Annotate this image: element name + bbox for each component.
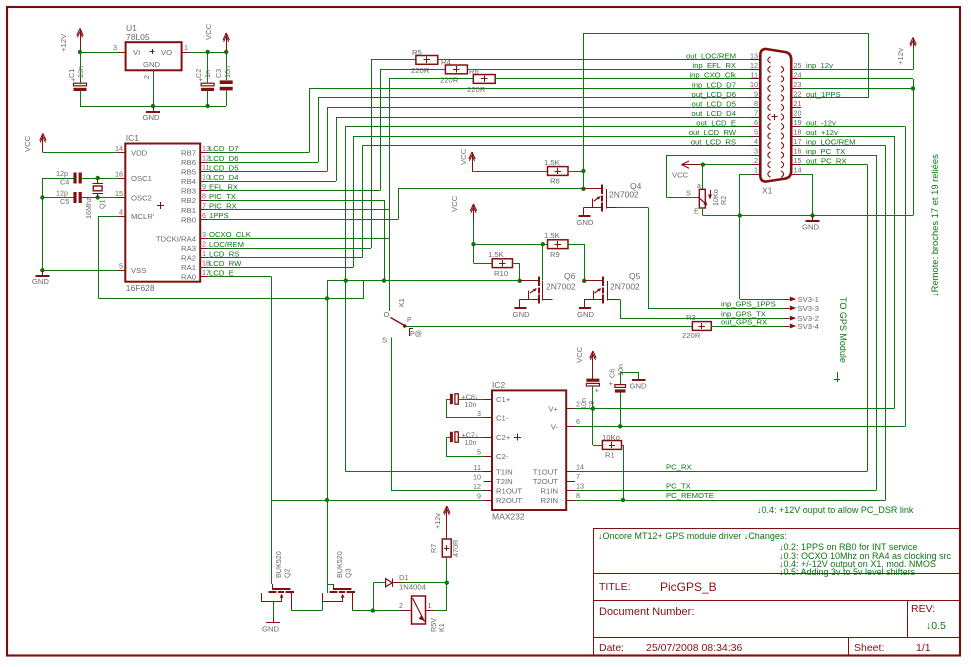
svg-text:+12v: +12v (433, 513, 442, 529)
svg-text:Q3: Q3 (344, 568, 353, 578)
svg-text:9: 9 (477, 492, 481, 501)
svg-text:2: 2 (399, 601, 403, 610)
svg-text:10Ko: 10Ko (602, 433, 620, 442)
svg-text:+: + (609, 379, 614, 388)
svg-text:R7: R7 (429, 544, 438, 553)
svg-text:1.5K: 1.5K (488, 250, 505, 259)
svg-text:7: 7 (202, 201, 206, 210)
svg-text:VI: VI (133, 48, 140, 57)
svg-text:Date:: Date: (599, 642, 624, 654)
svg-text:V-: V- (551, 422, 559, 431)
svg-text:SV3-1: SV3-1 (798, 295, 819, 304)
svg-text:inp_12v: inp_12v (806, 61, 833, 70)
svg-text:+12v: +12v (896, 48, 905, 65)
svg-text:OCXO_CLK: OCXO_CLK (209, 230, 252, 239)
svg-text:R1: R1 (605, 451, 615, 460)
svg-text:Q1: Q1 (98, 199, 107, 209)
svg-text:↓Oncore MT12+ GPS module drive: ↓Oncore MT12+ GPS module driver ↓Changes… (598, 531, 787, 541)
svg-text:REV:: REV: (911, 603, 935, 615)
svg-text:R9: R9 (550, 250, 560, 259)
svg-text:R2IN: R2IN (540, 496, 558, 505)
svg-text:8: 8 (576, 491, 580, 500)
svg-text:out_LCD_RW: out_LCD_RW (689, 128, 737, 137)
svg-text:GND: GND (143, 60, 161, 69)
svg-text:T1IN: T1IN (496, 468, 513, 477)
svg-text:RA0: RA0 (181, 273, 196, 282)
svg-text:TO GPS Module: TO GPS Module (838, 297, 848, 363)
svg-text:8: 8 (754, 99, 758, 108)
svg-text:6: 6 (202, 211, 206, 220)
svg-text:1: 1 (428, 601, 432, 610)
svg-text:2: 2 (754, 156, 758, 165)
svg-text:GND: GND (143, 113, 161, 122)
svg-text:6: 6 (576, 417, 580, 426)
svg-text:VCC: VCC (575, 346, 584, 363)
svg-text:MAX232: MAX232 (492, 512, 525, 522)
svg-text:↓0.5: ↓0.5 (926, 620, 946, 632)
svg-text:RA3: RA3 (181, 244, 196, 253)
svg-text:T2IN: T2IN (496, 477, 513, 486)
svg-text:LCD_D7: LCD_D7 (209, 144, 238, 153)
svg-text:16: 16 (115, 170, 123, 179)
svg-text:inp_LCD_D7: inp_LCD_D7 (692, 80, 736, 89)
svg-text:C2-: C2- (496, 452, 509, 461)
svg-text:3: 3 (202, 230, 206, 239)
svg-text:out_PC_RX: out_PC_RX (806, 156, 847, 165)
svg-text:inp_CXO_Clk: inp_CXO_Clk (689, 71, 736, 80)
svg-text:X1: X1 (762, 186, 773, 196)
svg-text:220R: 220R (467, 85, 486, 94)
svg-text:5: 5 (119, 262, 123, 271)
svg-text:↓Remote: broches 17 et 19 reli: ↓Remote: broches 17 et 19 reliées (929, 154, 940, 297)
svg-text:PC_REMOTE: PC_REMOTE (666, 491, 714, 500)
svg-text:R6: R6 (469, 67, 479, 76)
svg-text:R4: R4 (441, 58, 452, 67)
svg-text:4: 4 (119, 208, 123, 217)
svg-text:22: 22 (794, 89, 802, 98)
svg-text:out_LCD_D6: out_LCD_D6 (692, 90, 736, 99)
svg-text:LCD_RW: LCD_RW (209, 259, 242, 268)
svg-text:VCC: VCC (672, 171, 689, 180)
svg-text:8: 8 (202, 192, 206, 201)
svg-text:C1+: C1+ (496, 395, 511, 404)
svg-text:GND: GND (630, 382, 648, 391)
svg-text:1: 1 (184, 43, 188, 52)
svg-text:1N4004: 1N4004 (399, 583, 427, 592)
svg-text:3: 3 (113, 43, 117, 52)
svg-text:16F628: 16F628 (126, 283, 155, 293)
svg-text:SV3-3: SV3-3 (798, 304, 819, 313)
svg-text:OSC2: OSC2 (131, 194, 152, 203)
svg-text:R1OUT: R1OUT (496, 487, 522, 496)
svg-text:out_LCD_D5: out_LCD_D5 (692, 99, 736, 108)
svg-text:16: 16 (794, 147, 802, 156)
svg-text:LCD_D4: LCD_D4 (209, 173, 239, 182)
svg-text:19: 19 (794, 118, 802, 127)
svg-text:220R: 220R (682, 331, 701, 340)
svg-text:14: 14 (794, 166, 802, 175)
svg-text:Sheet:: Sheet: (854, 642, 884, 654)
svg-text:Q5: Q5 (629, 271, 641, 281)
svg-text:+12V: +12V (59, 33, 68, 52)
svg-text:TDCKI/RA4: TDCKI/RA4 (156, 234, 197, 243)
svg-text:RB1: RB1 (181, 206, 196, 215)
svg-text:R2OUT: R2OUT (496, 496, 522, 505)
svg-text:18: 18 (794, 128, 802, 137)
svg-text:C3: C3 (214, 69, 223, 78)
svg-text:VDD: VDD (131, 148, 148, 157)
svg-text:D1: D1 (399, 573, 409, 582)
svg-text:LOC/REM: LOC/REM (209, 240, 244, 249)
svg-text:out_+12v: out_+12v (806, 128, 838, 137)
svg-text:RB4: RB4 (181, 177, 197, 186)
svg-text:10n: 10n (76, 66, 85, 78)
svg-text:12: 12 (750, 61, 758, 70)
svg-text:RA1: RA1 (181, 263, 196, 272)
svg-text:C2: C2 (194, 69, 203, 78)
svg-text:14: 14 (115, 144, 123, 153)
svg-text:C1: C1 (67, 69, 76, 78)
svg-text:17: 17 (794, 137, 802, 146)
svg-text:MCLR': MCLR' (131, 212, 155, 221)
svg-text:12: 12 (473, 482, 481, 491)
svg-text:14: 14 (576, 462, 584, 471)
svg-text:GND: GND (513, 310, 531, 319)
svg-text:9: 9 (202, 182, 206, 191)
svg-text:10n: 10n (223, 66, 232, 78)
svg-text:4: 4 (754, 137, 758, 146)
svg-text:VCC: VCC (459, 148, 468, 165)
svg-text:15: 15 (115, 189, 123, 198)
svg-text:GND: GND (32, 277, 50, 286)
svg-text:RB2: RB2 (181, 196, 196, 205)
svg-text:13: 13 (750, 51, 758, 60)
svg-text:O: O (384, 310, 390, 319)
svg-text:2N7002: 2N7002 (609, 190, 639, 200)
svg-text:↓0.5: Adding 3v to 5v level sh: ↓0.5: Adding 3v to 5v level shifters (779, 567, 916, 577)
svg-text:11: 11 (751, 70, 758, 79)
svg-text:C2+: C2+ (496, 433, 511, 442)
svg-text:78L05: 78L05 (126, 32, 150, 42)
svg-text:R10: R10 (494, 269, 508, 278)
svg-text:6: 6 (754, 118, 758, 127)
svg-text:1/1: 1/1 (916, 642, 931, 654)
svg-text:out_-12v: out_-12v (806, 118, 836, 127)
svg-text:24: 24 (794, 70, 802, 79)
svg-text:13: 13 (576, 481, 584, 490)
svg-text:21: 21 (794, 99, 802, 108)
svg-text:T2OUT: T2OUT (533, 477, 559, 486)
svg-text:VSS: VSS (131, 266, 146, 275)
svg-text:10n: 10n (465, 438, 477, 447)
svg-text:K1: K1 (437, 623, 446, 632)
svg-text:5: 5 (754, 128, 758, 137)
svg-text:+: + (595, 386, 600, 395)
svg-text:VO: VO (161, 48, 172, 57)
svg-text:470R: 470R (451, 540, 460, 557)
svg-text:20: 20 (794, 109, 802, 118)
svg-text:RB7: RB7 (181, 148, 196, 157)
svg-text:OSC1: OSC1 (131, 174, 152, 183)
svg-text:GND: GND (577, 310, 595, 319)
svg-text:VCC: VCC (23, 135, 32, 152)
svg-text:K1: K1 (397, 298, 406, 307)
svg-text:R5: R5 (412, 48, 422, 57)
svg-text:R3: R3 (686, 313, 696, 322)
svg-text:7: 7 (576, 472, 580, 481)
svg-text:out_LOC/REM: out_LOC/REM (686, 52, 736, 61)
svg-text:LCD_D5: LCD_D5 (209, 163, 238, 172)
svg-text:inp_PC_TX: inp_PC_TX (806, 147, 845, 156)
svg-text:S: S (686, 189, 691, 198)
svg-text:9: 9 (754, 89, 758, 98)
svg-text:RB5: RB5 (181, 168, 196, 177)
svg-text:Q2: Q2 (283, 568, 292, 578)
svg-text:2: 2 (202, 240, 206, 249)
svg-text:25/07/2008 08:34:36: 25/07/2008 08:34:36 (646, 642, 743, 654)
svg-text:11: 11 (474, 463, 481, 472)
svg-text:15: 15 (794, 156, 802, 165)
svg-text:C1-: C1- (496, 414, 509, 423)
svg-text:2: 2 (142, 75, 151, 79)
svg-text:25: 25 (794, 61, 802, 70)
svg-text:C5: C5 (60, 197, 69, 206)
svg-text:R1IN: R1IN (540, 487, 558, 496)
svg-text:S: S (382, 336, 387, 345)
svg-text:a: a (697, 183, 701, 190)
svg-text:P: P (407, 317, 412, 324)
svg-text:10n: 10n (616, 364, 625, 376)
svg-text:220R: 220R (411, 66, 430, 75)
svg-text:out_LCD_RS: out_LCD_RS (691, 137, 736, 146)
svg-text:E: E (694, 207, 699, 216)
svg-text:7: 7 (754, 109, 758, 118)
svg-text:16Mhz: 16Mhz (84, 197, 93, 219)
svg-text:PC_TX: PC_TX (666, 482, 691, 491)
svg-text:inp_LOC/REM: inp_LOC/REM (806, 137, 856, 146)
svg-text:V+: V+ (548, 405, 558, 414)
svg-text:out_GPS_RX: out_GPS_RX (721, 318, 767, 327)
svg-text:GND: GND (576, 218, 594, 227)
svg-text:10: 10 (473, 473, 481, 482)
svg-text:inp_EFL_RX: inp_EFL_RX (692, 61, 736, 70)
svg-text:IC2: IC2 (492, 380, 506, 390)
svg-text:10n: 10n (465, 400, 477, 409)
svg-text:IC1: IC1 (126, 133, 140, 143)
svg-text:R8: R8 (550, 177, 560, 186)
svg-text:Document Number:: Document Number: (599, 606, 694, 618)
svg-text:VCC: VCC (450, 195, 459, 212)
svg-text:R2: R2 (719, 196, 728, 205)
svg-text:T1OUT: T1OUT (533, 468, 559, 477)
svg-text:23: 23 (794, 80, 802, 89)
svg-text:PicGPS_B: PicGPS_B (660, 580, 717, 594)
svg-text:RB0: RB0 (181, 215, 196, 224)
svg-text:1: 1 (202, 249, 206, 258)
svg-text:1PPS: 1PPS (209, 211, 229, 220)
svg-text:↓0.4: +12V ouput to allow PC_D: ↓0.4: +12V ouput to allow PC_DSR link (757, 505, 914, 515)
svg-text:220R: 220R (440, 76, 459, 85)
svg-text:out_LCD_D4: out_LCD_D4 (692, 109, 737, 118)
svg-text:LCD_D6: LCD_D6 (209, 154, 238, 163)
svg-text:SV3-4: SV3-4 (798, 322, 820, 331)
svg-text:Q6: Q6 (564, 271, 576, 281)
svg-text:out_1PPS: out_1PPS (806, 90, 841, 99)
svg-text:PC_RX: PC_RX (666, 463, 692, 472)
svg-text:1.5K: 1.5K (544, 158, 561, 167)
svg-text:GND: GND (802, 223, 820, 232)
svg-text:1.5K: 1.5K (544, 231, 561, 240)
svg-text:5: 5 (477, 448, 481, 457)
svg-text:RB6: RB6 (181, 158, 196, 167)
svg-text:10: 10 (750, 80, 758, 89)
svg-text:3: 3 (477, 409, 481, 418)
svg-text:GND: GND (262, 625, 280, 634)
svg-text:3: 3 (754, 147, 758, 156)
svg-text:TITLE:: TITLE: (599, 581, 631, 593)
svg-text:C4: C4 (60, 178, 69, 187)
svg-text:out_LCD_E: out_LCD_E (696, 118, 736, 127)
svg-text:PIC_TX: PIC_TX (209, 192, 236, 201)
svg-text:RB3: RB3 (181, 187, 196, 196)
svg-text:RA2: RA2 (181, 254, 196, 263)
svg-text:1n: 1n (203, 70, 212, 78)
svg-text:1: 1 (754, 166, 758, 175)
svg-text:2N7002: 2N7002 (610, 282, 640, 292)
svg-text:P@: P@ (410, 329, 422, 338)
svg-text:inp_GPS_1PPS: inp_GPS_1PPS (721, 300, 776, 309)
svg-text:VCC: VCC (204, 23, 213, 40)
svg-text:2N7002: 2N7002 (546, 282, 576, 292)
